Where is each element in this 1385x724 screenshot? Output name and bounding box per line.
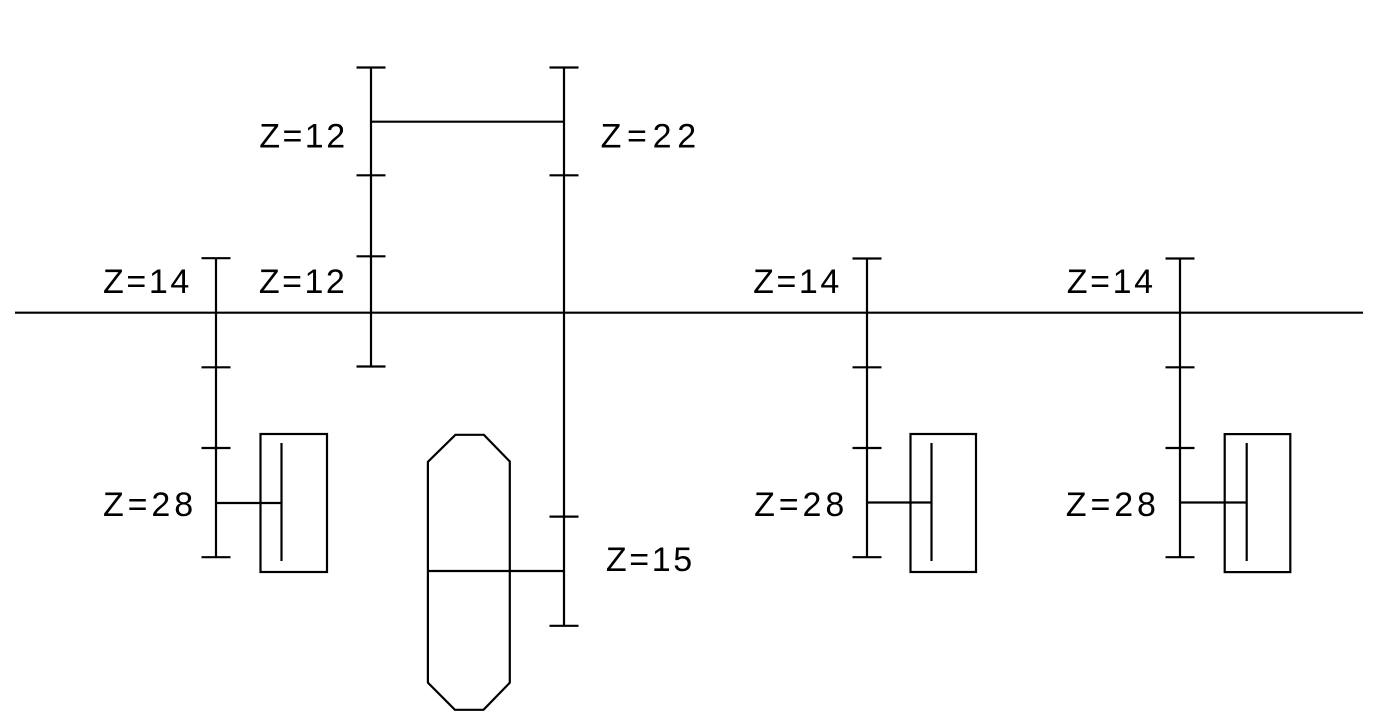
- shaft C tick 3: [202, 447, 231, 449]
- svg-text:Z=14: Z=14: [103, 263, 192, 301]
- shaft C tick 2: [202, 366, 231, 368]
- right clutch inner line: [1246, 443, 1248, 561]
- svg-text:Z=28: Z=28: [1066, 486, 1160, 524]
- svg-text:Z=28: Z=28: [754, 486, 848, 524]
- svg-text:Z=22: Z=22: [601, 117, 702, 155]
- svg-text:Z=14: Z=14: [753, 263, 842, 301]
- main shaft horizontal line: [15, 312, 1363, 314]
- shaft B bottom tick: [550, 625, 579, 627]
- shaft D bottom tick: [853, 556, 882, 558]
- shaft E vertical (Z=14/Z=28 right): [1179, 259, 1181, 558]
- middle clutch connector: [867, 501, 932, 503]
- shaft E tick 3: [1166, 447, 1195, 449]
- right clutch connector: [1180, 501, 1247, 503]
- shaft E tick 2: [1166, 366, 1195, 368]
- shaft A tick 3: [357, 255, 386, 257]
- shaft D top tick: [853, 257, 882, 259]
- left clutch inner line: [280, 443, 282, 561]
- middle clutch inner line: [930, 443, 932, 561]
- shaft C top tick: [202, 257, 231, 259]
- shaft D vertical (Z=14/Z=28 middle): [866, 259, 868, 558]
- shaft E bottom tick: [1166, 556, 1195, 558]
- left clutch housing rectangle: [261, 434, 328, 572]
- svg-text:Z=12: Z=12: [259, 117, 347, 155]
- shaft B tick 3: [550, 515, 579, 517]
- shaft E top tick: [1166, 257, 1195, 259]
- shaft D tick 2: [853, 366, 882, 368]
- svg-text:Z=12: Z=12: [259, 263, 347, 301]
- svg-text:Z=14: Z=14: [1067, 263, 1156, 301]
- svg-text:Z=15: Z=15: [606, 541, 695, 579]
- top gear connector line: [371, 121, 564, 123]
- right clutch housing rectangle: [1225, 434, 1291, 572]
- shaft C vertical (Z=14/Z=28 left): [215, 258, 217, 557]
- gear wheel mid line to shaft B: [428, 570, 564, 572]
- middle clutch housing rectangle: [911, 434, 977, 572]
- central gear wheel octagon: [428, 435, 510, 710]
- shaft A bottom tick: [357, 365, 386, 367]
- shaft C bottom tick: [202, 556, 231, 558]
- shaft D tick 3: [853, 447, 882, 449]
- left clutch connector: [216, 502, 282, 504]
- shaft A vertical (gear pair Z=12/Z=12): [370, 68, 372, 367]
- shaft B tick 2: [550, 174, 579, 176]
- shaft B vertical (gear Z=22/Z=15): [563, 68, 565, 626]
- shaft A tick 2: [357, 174, 386, 176]
- shaft B top tick: [550, 66, 579, 68]
- svg-text:Z=28: Z=28: [103, 486, 197, 524]
- shaft A top tick: [357, 66, 386, 68]
